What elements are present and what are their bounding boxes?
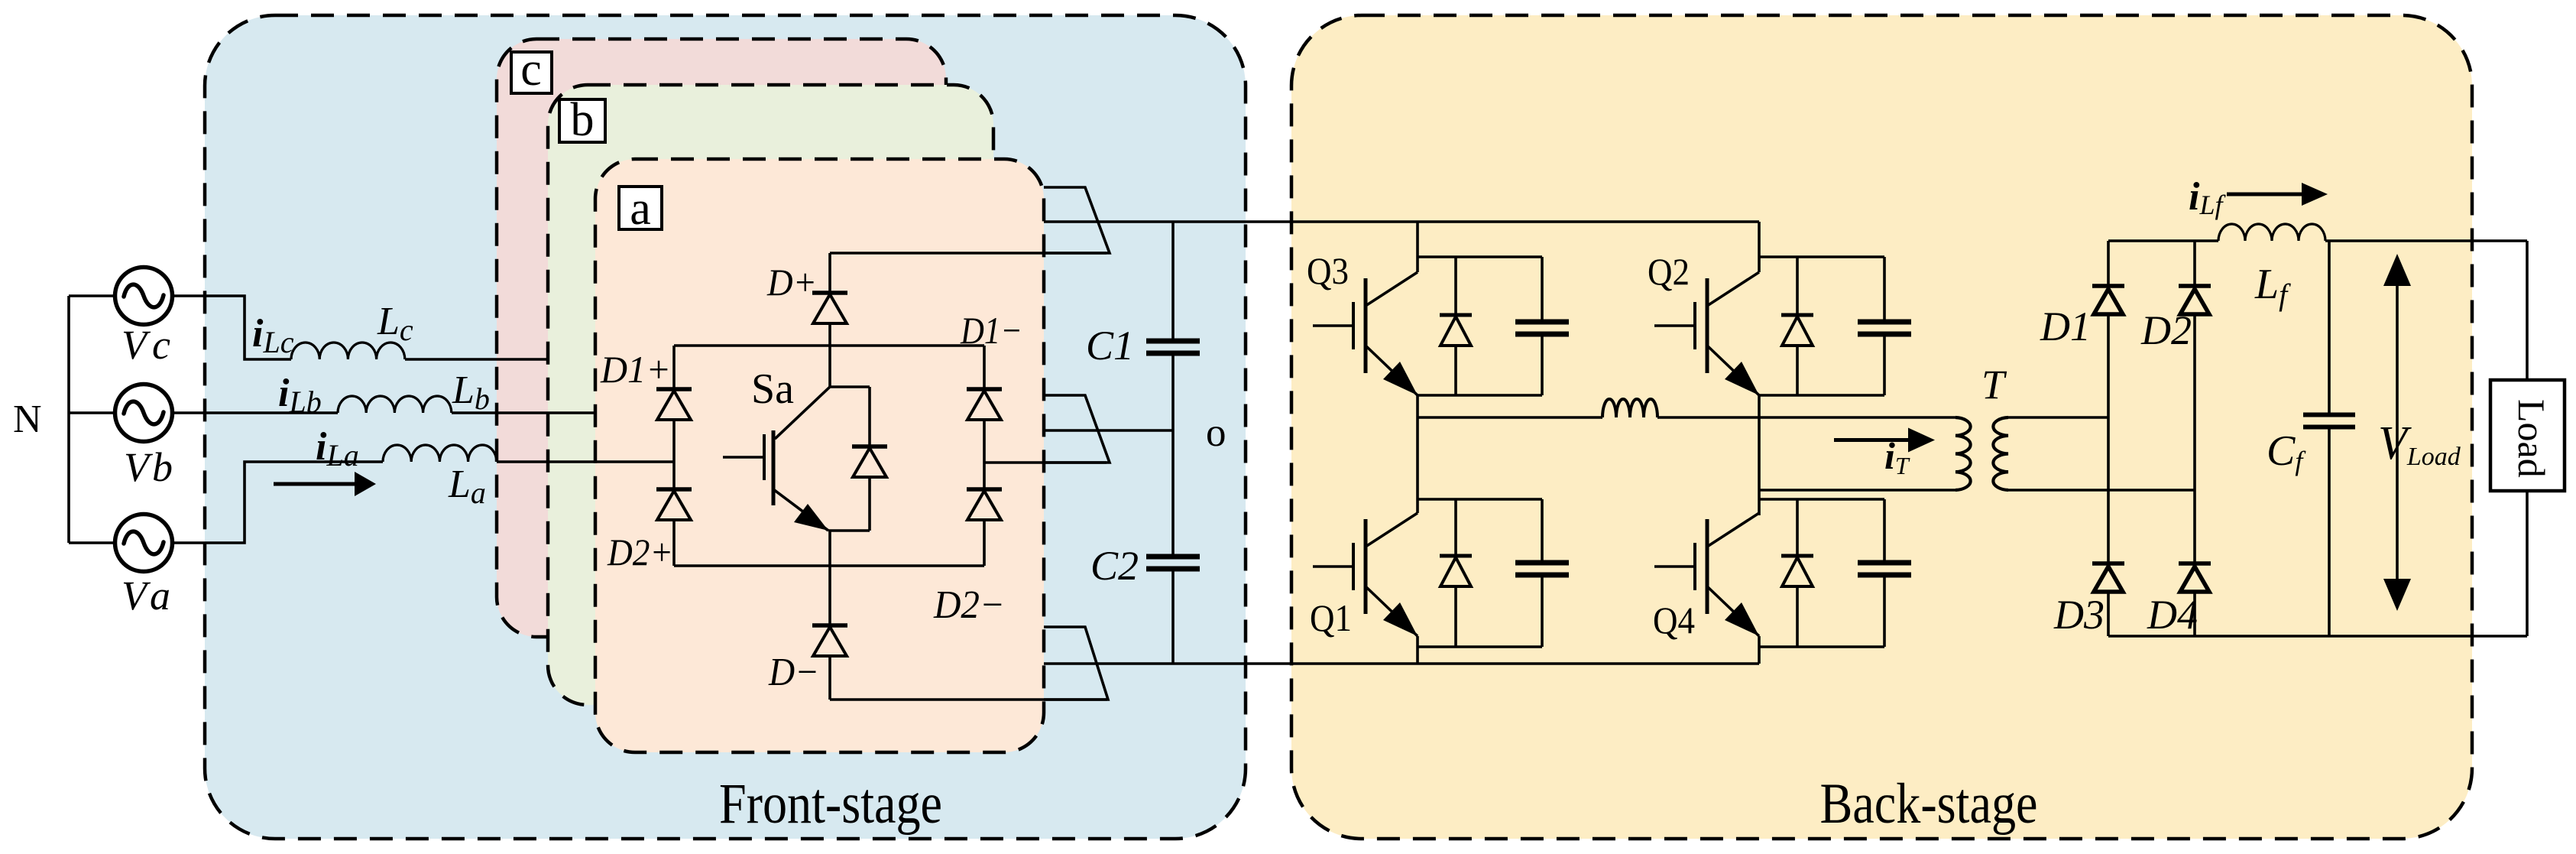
svg-text:o: o (1206, 411, 1226, 455)
svg-text:D2: D2 (2140, 307, 2192, 353)
svg-text:D1−: D1− (960, 309, 1022, 352)
svg-text:N: N (13, 398, 42, 441)
svg-text:Load: Load (2510, 399, 2553, 478)
svg-text:Q1: Q1 (1310, 596, 1352, 639)
svg-text:D1: D1 (2040, 304, 2091, 349)
svg-text:Front-stage: Front-stage (719, 772, 942, 836)
svg-text:T: T (1981, 362, 2007, 408)
svg-text:Q2: Q2 (1648, 250, 1690, 293)
svg-text:c: c (520, 44, 542, 96)
svg-text:D1+: D1+ (600, 348, 671, 391)
svg-text:Back-stage: Back-stage (1820, 772, 2038, 836)
svg-text:C1: C1 (1086, 323, 1134, 369)
svg-text:b: b (571, 94, 595, 146)
svg-text:Sa: Sa (751, 365, 794, 413)
svg-text:D−: D− (768, 651, 819, 694)
svg-text:Vc: Vc (122, 322, 170, 368)
svg-text:D3: D3 (2053, 592, 2105, 638)
svg-text:Va: Va (122, 573, 170, 619)
svg-text:Q4: Q4 (1653, 599, 1695, 641)
svg-text:D2−: D2− (933, 583, 1005, 627)
svg-text:D+: D+ (766, 261, 817, 304)
svg-text:D4: D4 (2147, 592, 2198, 638)
svg-text:C2: C2 (1090, 543, 1139, 589)
svg-text:a: a (630, 183, 651, 235)
svg-text:Vb: Vb (124, 444, 173, 490)
svg-text:D2+: D2+ (607, 531, 673, 573)
svg-text:Q3: Q3 (1307, 249, 1349, 292)
